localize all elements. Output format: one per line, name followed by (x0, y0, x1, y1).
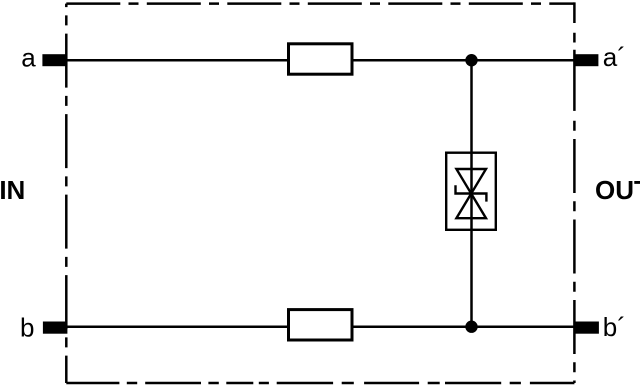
suppressor diode lower triangle (456, 194, 486, 219)
svg-text:b´: b´ (603, 312, 626, 342)
enclosure dash-dot boundary (right side lower) (573, 121, 576, 383)
svg-text:b: b (20, 312, 34, 342)
terminal pad a (42, 54, 66, 66)
suppressor diode upper triangle (456, 169, 486, 194)
wire b to b' (bottom line) (66, 325, 574, 328)
terminal pad b (43, 322, 68, 334)
suppressor diode box (446, 153, 496, 230)
svg-text:IN: IN (0, 175, 25, 205)
terminal pad a' (574, 54, 598, 66)
resistor bottom (series decoupling element) (289, 310, 353, 340)
label a (21, 42, 36, 72)
enclosure dash-dot boundary (left side) (65, 4, 68, 383)
label a' (603, 42, 626, 72)
label b' (603, 312, 626, 342)
svg-text:OUT: OUT (595, 175, 640, 205)
suppressor diode cathode Z-bar (456, 185, 487, 201)
enclosure dash-dot boundary (top side) (66, 2, 574, 5)
label IN (0, 175, 25, 205)
wire vertical shunt branch (470, 60, 473, 327)
resistor top (series decoupling element) (289, 44, 353, 74)
node junction bottom (465, 321, 477, 333)
label b (20, 312, 34, 342)
svg-text:a´: a´ (603, 42, 626, 72)
enclosure dash-dot boundary (right side upper) (573, 2, 576, 111)
enclosure dash-dot boundary (bottom side) (66, 382, 574, 385)
label OUT (595, 175, 640, 205)
node junction top (465, 54, 477, 66)
wire a to a' (top line) (66, 59, 574, 62)
svg-text:a: a (21, 42, 36, 72)
terminal pad b' (574, 322, 599, 334)
